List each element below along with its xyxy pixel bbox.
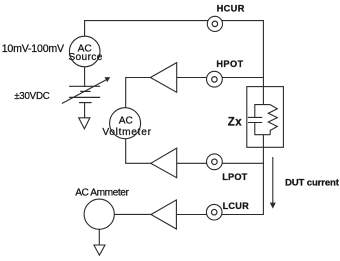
svg-text:LPOT: LPOT: [222, 172, 247, 182]
svg-text:AC Ammeter: AC Ammeter: [75, 188, 129, 199]
op-amp buffer HPOT: [150, 63, 176, 93]
AC Voltmeter circle: [110, 108, 141, 139]
svg-text:Source: Source: [68, 52, 102, 63]
wire DUT internal loop bars and bottom lead: [255, 105, 270, 148]
svg-text:10mV-100mV: 10mV-100mV: [2, 43, 65, 55]
battery (variable DC bias source) plates: [69, 86, 100, 102]
op-amp buffer LCUR: [151, 200, 176, 229]
terminal LPOT: [207, 154, 223, 170]
capacitor inside Zx (plates): [248, 117, 262, 122]
wire ammeter bottom lead to ground: [98, 229, 100, 245]
ground under battery: [79, 118, 90, 129]
svg-text:HPOT: HPOT: [216, 59, 243, 69]
svg-text:HCUR: HCUR: [217, 4, 245, 14]
DUT current arrow: [270, 157, 276, 209]
wire HPOT row: voltmeter top corner to right rail: [126, 78, 264, 108]
svg-text:DUT current: DUT current: [285, 177, 340, 188]
wire bias battery to ground: [84, 103, 86, 118]
svg-text:LCUR: LCUR: [223, 201, 249, 211]
svg-text:±30VDC: ±30VDC: [14, 91, 50, 102]
terminal LCUR: [206, 204, 222, 220]
op-amp buffer LPOT: [151, 148, 177, 178]
wire right rail below DUT box down to LCUR row: [176, 135, 263, 215]
svg-text:Voltmeter: Voltmeter: [102, 127, 151, 138]
ground under ammeter: [94, 245, 105, 255]
DUT box Zx: [247, 87, 284, 148]
AC Source circle: [69, 36, 100, 67]
wire LPOT row: voltmeter bottom corner to right rail: [126, 139, 264, 164]
wire DUT internal top lead: [262, 87, 264, 105]
wire top rail HCUR: AC source top to right rail: [85, 21, 264, 87]
resistor inside Zx (zigzag): [268, 105, 277, 135]
terminal HPOT: [207, 71, 223, 87]
variable adjustment arrow over battery: [62, 77, 110, 103]
wire AC source bottom lead to bias battery: [84, 67, 86, 87]
wire LCUR row: ammeter to amplifier: [114, 213, 151, 215]
svg-text:Zx: Zx: [228, 116, 243, 128]
terminal HCUR: [207, 16, 222, 31]
AC Ammeter circle: [84, 199, 114, 229]
svg-text:AC: AC: [119, 116, 133, 127]
